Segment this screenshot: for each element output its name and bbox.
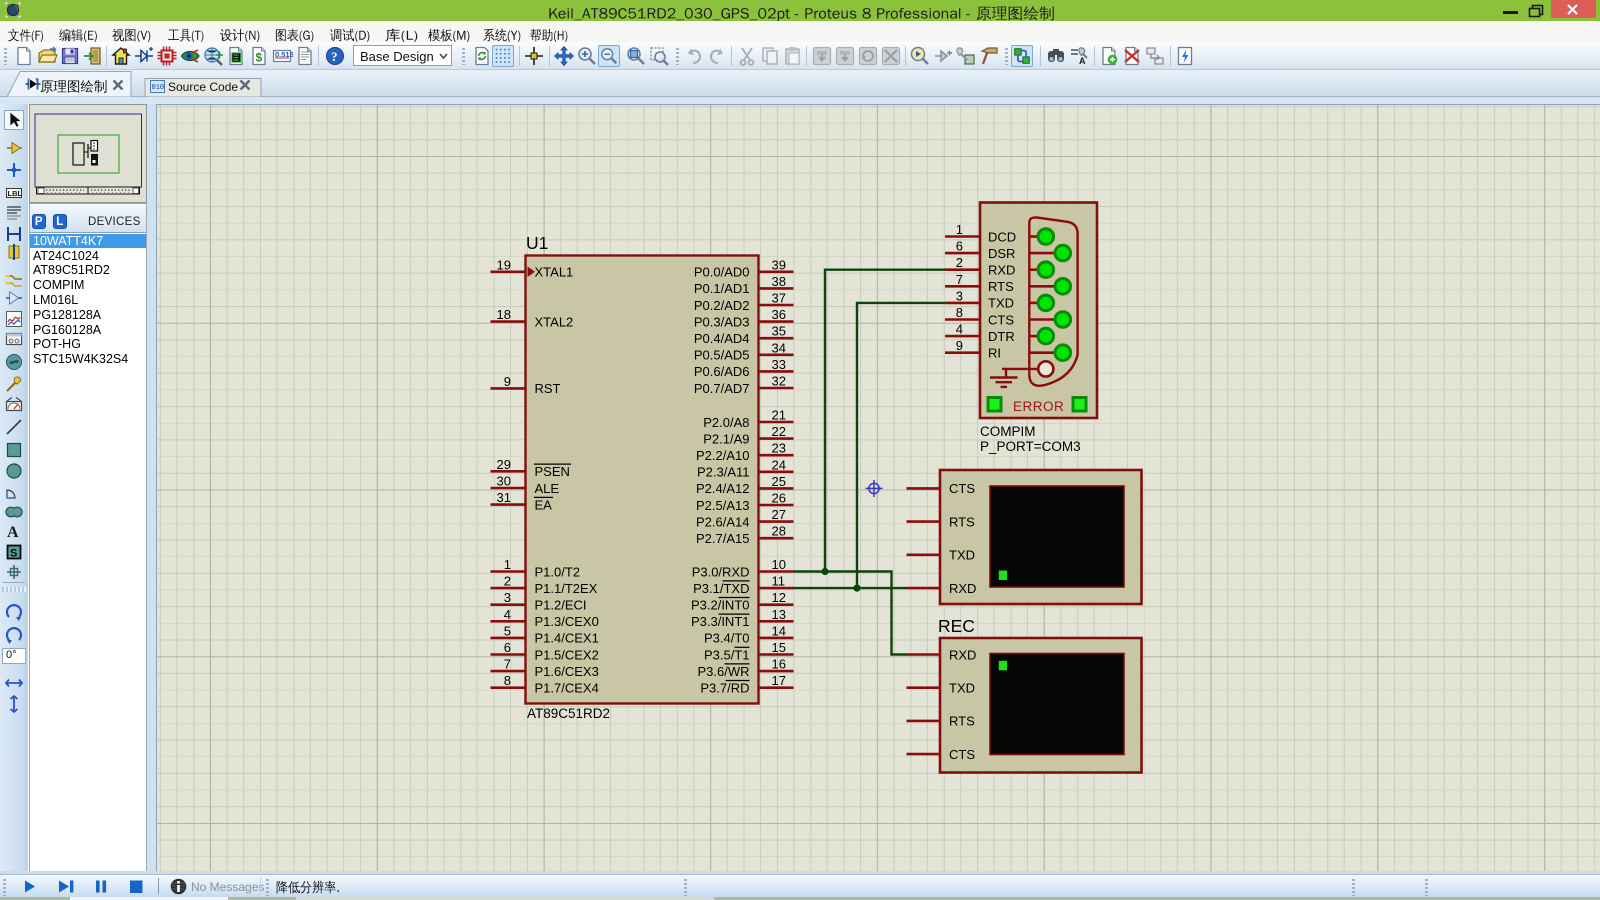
svg-text:33: 33 [772, 357, 786, 372]
svg-text:8: 8 [956, 305, 963, 320]
pin 19 clock arrow [528, 267, 536, 278]
pin 11 P3.1/TXD [693, 574, 793, 596]
DB9 pin circle L2 [1029, 262, 1053, 278]
pin 22 P2.1/A9 [703, 424, 793, 446]
svg-text:36: 36 [772, 307, 786, 322]
VT1 screen [990, 486, 1124, 587]
svg-text:28: 28 [772, 524, 786, 539]
pin 2 P1.1/T2EX [491, 574, 598, 596]
svg-text:P2.0/A8: P2.0/A8 [703, 415, 749, 430]
svg-text:7: 7 [504, 657, 511, 672]
svg-text:P1.6/CEX3: P1.6/CEX3 [535, 664, 599, 679]
label COMPIM [980, 424, 1036, 439]
svg-text:P0.2/AD2: P0.2/AD2 [694, 298, 750, 313]
ERROR label [1013, 399, 1064, 414]
label REC [938, 616, 975, 636]
svg-text:11: 11 [772, 574, 786, 589]
REC pin RXD [907, 647, 977, 662]
wire COMPIM.RXD to P3.0 vertical [825, 270, 945, 572]
DB9 pin circle R1 [1029, 245, 1070, 261]
svg-text:RST: RST [535, 381, 561, 396]
svg-text:23: 23 [772, 441, 786, 456]
pin 10 P3.0/RXD [692, 557, 794, 579]
svg-text:PSEN: PSEN [535, 464, 570, 479]
pin 4 P1.3/CEX0 [491, 607, 599, 629]
property P_PORT=COM3 [980, 439, 1081, 454]
svg-text:TXD: TXD [949, 548, 975, 563]
svg-text:30: 30 [497, 474, 511, 489]
svg-text:ERROR: ERROR [1013, 399, 1064, 414]
svg-text:A: A [7, 524, 19, 541]
svg-text:RTS: RTS [949, 514, 975, 529]
pin 33 P0.6/AD6 [694, 357, 794, 379]
REC screen [990, 654, 1124, 755]
svg-text:14: 14 [772, 623, 786, 638]
svg-text:22: 22 [772, 424, 786, 439]
pin 28 P2.7/A15 [696, 524, 794, 546]
COMPIM pin 8 CTS [945, 305, 1014, 327]
svg-text:27: 27 [772, 507, 786, 522]
DB9 pin circle R2 [1029, 279, 1070, 295]
COMPIM pin 3 TXD [945, 288, 1014, 310]
svg-text:39: 39 [772, 257, 786, 272]
pin 17 P3.7/RD [700, 673, 793, 695]
pin 12 P3.2/INT0 [691, 590, 794, 612]
COMPIM pin 6 DSR [945, 239, 1015, 261]
svg-text:24: 24 [772, 457, 786, 472]
svg-text:16: 16 [772, 657, 786, 672]
svg-text:P3.1/TXD: P3.1/TXD [693, 581, 749, 596]
pin 36 P0.3/AD3 [694, 307, 794, 329]
svg-text:P_PORT=COM3: P_PORT=COM3 [980, 439, 1081, 454]
REC cursor [999, 661, 1007, 671]
svg-text:2: 2 [504, 574, 511, 589]
svg-text:15: 15 [772, 640, 786, 655]
pin 37 P0.2/AD2 [694, 291, 794, 313]
svg-text:CTS: CTS [988, 312, 1014, 327]
svg-text:17: 17 [772, 673, 786, 688]
DB9 pin circle R3 [1029, 312, 1070, 328]
VT1 pin TXD [907, 548, 976, 563]
svg-text:P3.5/T1: P3.5/T1 [704, 647, 750, 662]
svg-text:XTAL2: XTAL2 [535, 314, 574, 329]
svg-text:9: 9 [956, 338, 963, 353]
pin 6 P1.5/CEX2 [491, 640, 599, 662]
svg-text:P0.5/AD5: P0.5/AD5 [694, 348, 750, 363]
svg-text:P3.2/INT0: P3.2/INT0 [691, 598, 750, 613]
wire P3.1/TXD to VT1.RXD [794, 587, 907, 589]
svg-text:8: 8 [504, 673, 511, 688]
label U1 [526, 233, 548, 253]
svg-text:35: 35 [772, 324, 786, 339]
svg-text:19: 19 [497, 257, 511, 272]
pin 14 P3.4/T0 [704, 623, 794, 645]
pin 7 P1.6/CEX3 [491, 657, 599, 679]
REC pin RTS [907, 714, 976, 729]
pin 9 RST [491, 374, 561, 396]
svg-text:U1: U1 [526, 233, 548, 253]
svg-text:P3.6/WR: P3.6/WR [697, 664, 749, 679]
svg-text:$: $ [256, 51, 263, 65]
svg-text:P0.6/AD6: P0.6/AD6 [694, 364, 750, 379]
svg-text:5: 5 [504, 623, 511, 638]
svg-text:0.515: 0.515 [275, 50, 293, 59]
pin 18 XTAL2 [491, 307, 574, 329]
svg-text:13: 13 [772, 607, 786, 622]
svg-text:10: 10 [772, 557, 786, 572]
svg-text:6: 6 [504, 640, 511, 655]
svg-text:P0.4/AD4: P0.4/AD4 [694, 331, 750, 346]
pin 26 P2.5/A13 [696, 491, 794, 513]
svg-text:P1.4/CEX1: P1.4/CEX1 [535, 631, 599, 646]
svg-text:?: ? [331, 49, 338, 64]
pin 32 P0.7/AD7 [694, 374, 794, 396]
svg-text:P0.3/AD3: P0.3/AD3 [694, 314, 750, 329]
wire COMPIM.TXD to P3.1 vertical [857, 303, 945, 588]
svg-text:26: 26 [772, 491, 786, 506]
virtual terminal REC body [940, 638, 1142, 773]
svg-text:4: 4 [956, 322, 963, 337]
svg-text:P1.5/CEX2: P1.5/CEX2 [535, 647, 599, 662]
pin 5 P1.4/CEX1 [491, 623, 599, 645]
pin 39 P0.0/AD0 [694, 257, 794, 279]
svg-text:P2.4/A12: P2.4/A12 [696, 481, 750, 496]
svg-text:18: 18 [497, 307, 511, 322]
svg-text:P2.7/A15: P2.7/A15 [696, 531, 750, 546]
svg-text:TXD: TXD [949, 681, 975, 696]
pin 27 P2.6/A14 [696, 507, 794, 529]
svg-text:25: 25 [772, 474, 786, 489]
svg-text:COMPIM: COMPIM [980, 424, 1036, 439]
svg-text:REC: REC [938, 616, 975, 636]
svg-text:7: 7 [956, 272, 963, 287]
svg-text:38: 38 [772, 274, 786, 289]
pin 3 P1.2/ECI [491, 590, 587, 612]
svg-text:P2.2/A10: P2.2/A10 [696, 448, 750, 463]
svg-text:29: 29 [497, 457, 511, 472]
svg-text:S: S [10, 548, 17, 560]
COMPIM pin 4 DTR [945, 322, 1015, 344]
pin 35 P0.4/AD4 [694, 324, 794, 346]
microcontroller U1 AT89C51RD2 body [526, 256, 759, 704]
VT1 pin CTS [907, 481, 976, 496]
svg-text:P0.1/AD1: P0.1/AD1 [694, 281, 750, 296]
svg-text:P3.0/RXD: P3.0/RXD [692, 564, 750, 579]
pin 8 P1.7/CEX4 [491, 673, 599, 695]
LED indicator left [987, 396, 1003, 413]
REC pin TXD [907, 681, 976, 696]
svg-text:P3.3/INT1: P3.3/INT1 [691, 614, 750, 629]
svg-text:2: 2 [956, 255, 963, 270]
svg-text:RXD: RXD [949, 581, 976, 596]
svg-text:P2.1/A9: P2.1/A9 [703, 431, 749, 446]
svg-text:XTAL1: XTAL1 [535, 265, 574, 280]
svg-text:LBL: LBL [8, 189, 23, 198]
pin 21 P2.0/A8 [703, 408, 793, 430]
REC pin CTS [907, 747, 976, 762]
DB9 connector outline [1029, 217, 1077, 385]
pin 15 P3.5/T1 [704, 640, 794, 662]
svg-text:P3.7/RD: P3.7/RD [700, 681, 749, 696]
svg-text:RI: RI [988, 346, 1001, 361]
svg-text:DSR: DSR [988, 246, 1015, 261]
svg-text:P0.0/AD0: P0.0/AD0 [694, 265, 750, 280]
COM port model COMPIM body [980, 203, 1097, 419]
DB9 pin circle L1 [1029, 229, 1053, 245]
origin marker [866, 480, 883, 497]
DB9 pin circle R4 [1029, 345, 1070, 361]
pin 38 P0.1/AD1 [694, 274, 794, 296]
svg-text:P0.7/AD7: P0.7/AD7 [694, 381, 750, 396]
ground [990, 369, 1038, 387]
svg-text:DTR: DTR [988, 329, 1015, 344]
pin 34 P0.5/AD5 [694, 340, 794, 362]
svg-text:3: 3 [504, 590, 511, 605]
svg-text:21: 21 [772, 408, 786, 423]
svg-text:37: 37 [772, 291, 786, 306]
svg-text:TXD: TXD [988, 296, 1014, 311]
DB9 pin circle L4 [1029, 328, 1053, 344]
VT1 pin RTS [907, 514, 976, 529]
svg-text:RXD: RXD [949, 647, 976, 662]
svg-text:A: A [1079, 56, 1086, 66]
wire P3.0/RXD to REC.RXD [794, 572, 907, 655]
value label AT89C51RD2 [527, 706, 610, 721]
VT1 pin RXD [907, 581, 977, 596]
svg-text:P1.2/ECI: P1.2/ECI [535, 598, 587, 613]
virtual terminal VT1 body [940, 470, 1142, 604]
svg-text:P1.7/CEX4: P1.7/CEX4 [535, 681, 599, 696]
svg-text:P2.6/A14: P2.6/A14 [696, 514, 750, 529]
svg-text:1: 1 [504, 557, 511, 572]
svg-text:3: 3 [956, 288, 963, 303]
svg-text:P1.3/CEX0: P1.3/CEX0 [535, 614, 599, 629]
svg-text:4: 4 [504, 607, 511, 622]
svg-text:CTS: CTS [949, 481, 975, 496]
pin 23 P2.2/A10 [696, 441, 794, 463]
svg-text:P2.5/A13: P2.5/A13 [696, 498, 750, 513]
svg-text:6: 6 [956, 239, 963, 254]
svg-text:P3.4/T0: P3.4/T0 [704, 631, 750, 646]
svg-text:RXD: RXD [988, 263, 1015, 278]
svg-text:RTS: RTS [988, 279, 1014, 294]
svg-text:P2.3/A11: P2.3/A11 [697, 465, 750, 480]
svg-text:31: 31 [497, 490, 511, 505]
VT1 cursor [999, 571, 1007, 581]
svg-text:1: 1 [956, 222, 963, 237]
svg-text:34: 34 [772, 340, 786, 355]
junction node B [853, 585, 860, 592]
svg-text:12: 12 [772, 590, 786, 605]
COMPIM pin 1 DCD [945, 222, 1016, 244]
COMPIM pin 9 RI [945, 338, 1001, 360]
pin 25 P2.4/A12 [696, 474, 794, 496]
svg-text:ALE: ALE [535, 481, 560, 496]
pin 29 PSEN [491, 457, 572, 479]
svg-text:9: 9 [504, 374, 511, 389]
svg-text:32: 32 [772, 374, 786, 389]
pin 13 P3.3/INT1 [691, 607, 794, 629]
svg-text:010: 010 [152, 84, 165, 92]
svg-text:P1.1/T2EX: P1.1/T2EX [535, 581, 598, 596]
junction node A [821, 568, 828, 575]
DB9 pin circle L3 [1029, 295, 1053, 311]
COMPIM pin 7 RTS [945, 272, 1014, 294]
COMPIM pin 2 RXD [945, 255, 1015, 277]
svg-text:AT89C51RD2: AT89C51RD2 [527, 706, 610, 721]
svg-text:DCD: DCD [988, 229, 1016, 244]
LED indicator right [1072, 396, 1088, 413]
pin 1 P1.0/T2 [491, 557, 581, 579]
pin 31 EA [491, 490, 554, 512]
svg-text:EA: EA [535, 497, 553, 512]
svg-text:RTS: RTS [949, 714, 975, 729]
pin 19 XTAL1 [491, 257, 574, 279]
pin 16 P3.6/WR [697, 657, 793, 679]
svg-text:CTS: CTS [949, 747, 975, 762]
svg-text:P1.0/T2: P1.0/T2 [535, 564, 581, 579]
pin 30 ALE [491, 474, 560, 496]
pin 24 P2.3/A11 [697, 457, 794, 479]
DB9 shell pin (open) [1038, 361, 1053, 376]
